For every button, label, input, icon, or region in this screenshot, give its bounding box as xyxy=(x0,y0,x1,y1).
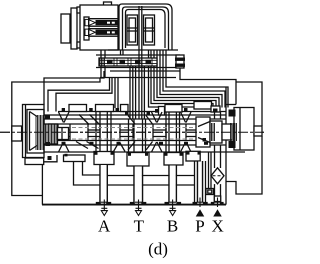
svg-text:X: X xyxy=(211,217,223,236)
svg-text:A: A xyxy=(98,217,111,236)
svg-text:P: P xyxy=(195,217,204,236)
svg-text:B: B xyxy=(167,217,178,236)
svg-text:T: T xyxy=(134,217,145,236)
svg-text:(d): (d) xyxy=(148,240,168,259)
